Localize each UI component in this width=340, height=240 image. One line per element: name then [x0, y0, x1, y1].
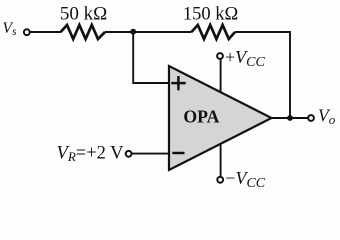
wire VR terminal to minus input	[132, 153, 169, 155]
wire R1 to node A	[105, 31, 192, 33]
terminal Vs circle	[24, 29, 30, 35]
wire -VCC stub	[220, 143, 222, 177]
terminal -VCC circle	[217, 177, 223, 183]
svg-text:−VCC: −VCC	[225, 168, 265, 191]
wire op-amp output to Vo terminal	[272, 117, 308, 119]
node A junction dot	[130, 29, 136, 35]
resistor R1 50 kOhm zigzag	[61, 25, 105, 39]
svg-text:+VCC: +VCC	[225, 47, 265, 70]
svg-text:Vo: Vo	[318, 105, 336, 127]
wire +VCC stub	[220, 60, 222, 94]
svg-text:VR=+2 V: VR=+2 V	[57, 143, 125, 164]
node output junction dot	[287, 115, 293, 121]
terminal VR circle	[126, 151, 132, 157]
svg-text:Vs: Vs	[3, 20, 17, 38]
minus input symbol	[172, 152, 184, 155]
svg-text:150 kΩ: 150 kΩ	[183, 5, 238, 25]
terminal +VCC circle	[217, 53, 223, 59]
op-amp U1 (OPA) triangle body	[169, 66, 272, 170]
svg-text:50 kΩ: 50 kΩ	[60, 4, 107, 25]
wire Vs terminal to resistor R1	[30, 31, 61, 33]
plus input symbol	[171, 76, 185, 90]
resistor R2 150 kOhm zigzag	[192, 25, 236, 39]
svg-text:OPA: OPA	[183, 106, 219, 126]
terminal Vo circle	[308, 115, 314, 121]
wire node A down and right to + input	[133, 32, 169, 83]
wire R2 to top-right corner, feedback down to output node	[235, 32, 290, 118]
